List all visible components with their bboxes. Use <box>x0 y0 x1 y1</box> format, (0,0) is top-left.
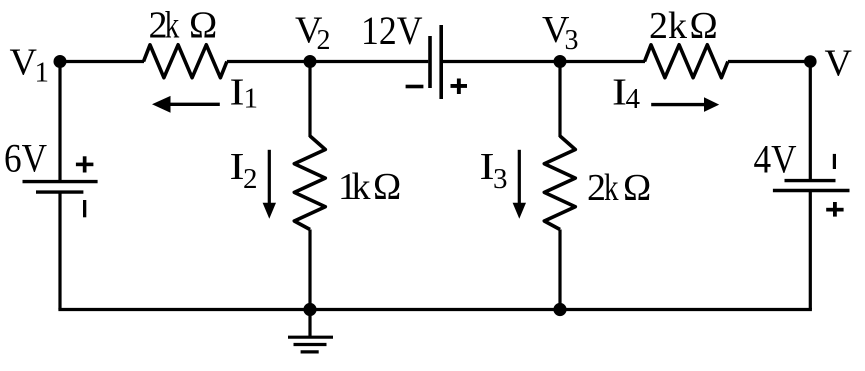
battery 4V long plate (positive) <box>773 189 850 192</box>
svg-text:3: 3 <box>565 25 579 56</box>
svg-text:V: V <box>825 43 853 85</box>
wire R1 to battery B12 through node V2 <box>227 60 428 63</box>
minus sign of 12V battery <box>406 85 424 89</box>
battery 6V long plate (positive) <box>23 180 98 183</box>
wire V2 branch upper <box>308 62 311 138</box>
resistor R1 2k ohm horizontal <box>144 45 227 78</box>
arrow I4 <box>651 103 705 106</box>
wire left rail lower <box>58 192 61 309</box>
node V3 dot <box>554 55 567 68</box>
junction dot bottom V3 branch <box>553 303 566 316</box>
plus sign of 12V battery <box>451 84 468 88</box>
wire bottom rail <box>58 308 812 311</box>
svg-text:V: V <box>10 42 38 84</box>
battery 4V short plate (negative) <box>785 179 836 182</box>
arrow I3 <box>518 150 521 204</box>
svg-text:Ω: Ω <box>690 5 718 47</box>
svg-text:k: k <box>165 5 180 47</box>
resistor R2 1k ohm vertical <box>294 136 325 230</box>
wire V2 branch lower <box>308 230 311 310</box>
plus sign of 4V battery <box>826 208 843 212</box>
svg-text:4: 4 <box>626 83 641 115</box>
svg-text:12V: 12V <box>361 8 423 53</box>
svg-text:Ω: Ω <box>189 5 217 47</box>
wire top V1 to R1 <box>60 60 144 63</box>
svg-text:Ω: Ω <box>623 167 651 209</box>
node V dot <box>804 55 817 68</box>
wire V3 branch upper <box>558 62 561 138</box>
svg-text:k: k <box>352 166 371 208</box>
minus tick of 6V battery <box>83 200 86 217</box>
svg-text:2: 2 <box>317 25 331 56</box>
svg-text:4V: 4V <box>754 137 797 182</box>
plus sign of 6V battery <box>76 163 94 167</box>
arrow I2 <box>268 150 271 204</box>
battery 12V short plate (negative) <box>428 36 432 88</box>
node V2 dot <box>304 55 317 68</box>
svg-text:1: 1 <box>35 56 50 88</box>
svg-text:I: I <box>230 72 245 114</box>
wire right rail lower <box>809 191 812 310</box>
ground symbol <box>288 336 333 339</box>
svg-text:3: 3 <box>493 163 508 195</box>
node V1 dot <box>54 55 67 68</box>
minus tick of 4V battery <box>833 154 836 169</box>
svg-text:Ω: Ω <box>373 166 401 208</box>
svg-text:6V: 6V <box>4 135 47 180</box>
svg-text:2: 2 <box>243 163 258 195</box>
svg-text:2k: 2k <box>649 5 687 47</box>
wire V3 branch lower <box>558 230 561 310</box>
svg-text:1: 1 <box>244 83 259 115</box>
battery 12V long plate (positive) <box>439 25 443 99</box>
resistor R3 2k ohm vertical <box>544 136 575 230</box>
resistor R4 2k ohm horizontal <box>645 45 728 78</box>
junction dot bottom V2 branch <box>303 303 316 316</box>
wire left rail upper <box>58 62 61 182</box>
battery 6V short plate (negative) <box>36 190 83 193</box>
wire battery B12 to R4 through node V3 <box>443 60 645 63</box>
svg-text:k: k <box>604 167 619 209</box>
wire R4 to node V <box>728 60 810 63</box>
wire right rail upper <box>809 62 812 181</box>
ground stub wire <box>308 310 311 338</box>
arrow I1 <box>168 103 220 106</box>
